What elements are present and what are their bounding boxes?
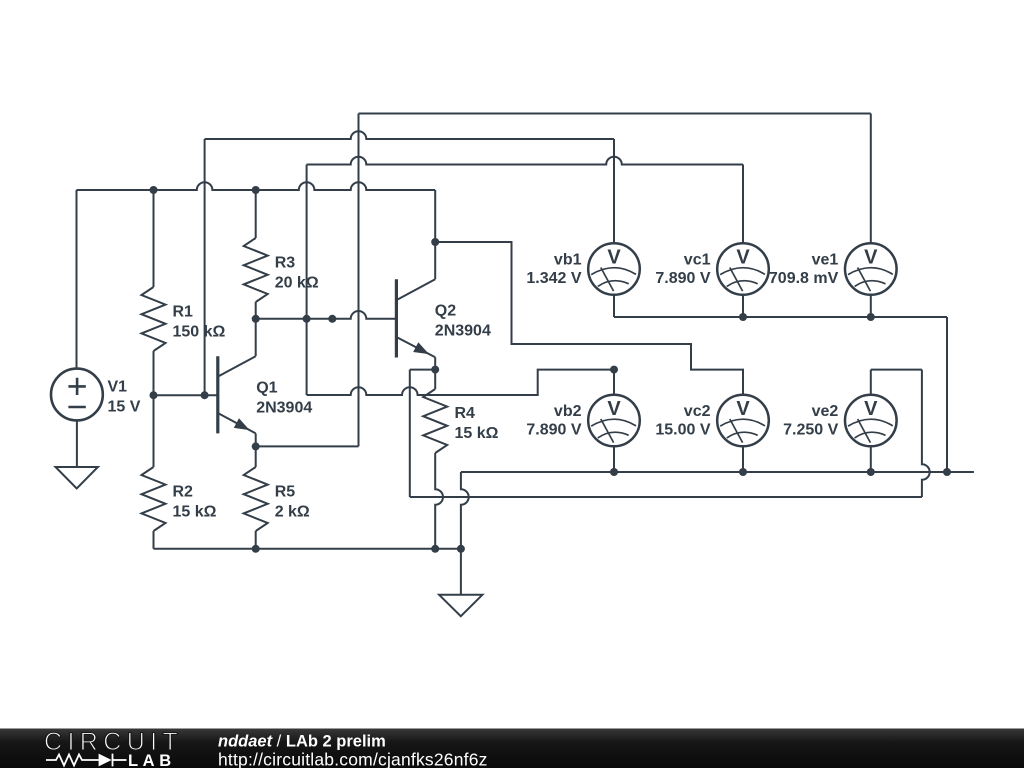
wire ve1 top drop	[870, 114, 872, 244]
ground symbol bottom	[439, 595, 482, 616]
wire R4 bottom lead with hop	[435, 453, 443, 549]
wire Q1 collector lead	[255, 319, 257, 356]
wire ve1 bottom stub	[870, 295, 872, 317]
wire rail1 down to ground with hop	[461, 472, 469, 549]
voltmeter ve2	[845, 395, 897, 447]
svg-text:V: V	[864, 247, 878, 269]
svg-text:R4: R4	[455, 405, 476, 422]
svg-text:2N3904: 2N3904	[435, 323, 491, 340]
wire Q1 base horizontal	[154, 394, 217, 396]
wire Q2 emitter elbow	[410, 357, 435, 369]
wire vc1 bottom stub	[742, 295, 744, 317]
wire ve2 top elbow	[871, 370, 922, 395]
transistor Q1	[218, 356, 256, 433]
node vc1 tap	[303, 315, 311, 323]
wire H4 +15V rail	[77, 182, 436, 190]
wire Q2 collector lead	[434, 242, 436, 279]
svg-text:nddaet / LAb 2 prelim: nddaet / LAb 2 prelim	[218, 733, 386, 751]
wire ground rail3	[154, 548, 461, 550]
wire R3 leads	[255, 190, 257, 319]
wire R3-bottom to Q2 base	[256, 311, 396, 319]
wire vc1 top drop	[742, 165, 744, 244]
wire Q1 emitter lead	[255, 433, 257, 446]
resistor R3 body	[244, 238, 268, 302]
wire V1 ground stem	[76, 420, 78, 467]
node Q2 emitter	[431, 366, 439, 374]
node Q2 collector	[431, 238, 439, 246]
svg-text:ve2: ve2	[812, 403, 839, 420]
wire Q2 emitter down to rail2	[409, 370, 411, 497]
resistor R2 body	[142, 467, 166, 531]
svg-text:R1: R1	[173, 304, 194, 321]
wire vc1 column down to vb2 line	[306, 165, 308, 396]
svg-text:15 kΩ: 15 kΩ	[173, 504, 217, 521]
svg-text:R3: R3	[275, 255, 296, 272]
svg-text:709.8 mV: 709.8 mV	[769, 270, 839, 287]
svg-text:Q2: Q2	[435, 303, 456, 320]
svg-text:R5: R5	[275, 484, 296, 501]
wire ve2 bottom stub	[870, 446, 872, 472]
wire Q2 collector to rail	[434, 190, 436, 242]
voltmeter vb1	[588, 243, 640, 295]
wire Q1 emitter horizontal	[256, 445, 359, 447]
wire meter rail1 row2 minus	[461, 471, 974, 473]
CircuitLab logo	[44, 728, 183, 768]
wire vb2 bottom stub	[613, 446, 615, 472]
ground symbol V1	[56, 467, 98, 488]
node base wire joint	[328, 315, 336, 323]
wire R2 leads	[153, 395, 155, 549]
node ground tap	[457, 545, 465, 553]
wire meter rail0 row1 minus	[614, 295, 947, 472]
svg-text:15.00 V: 15.00 V	[655, 422, 710, 439]
svg-text:2N3904: 2N3904	[256, 399, 312, 416]
svg-text:V: V	[607, 247, 621, 269]
wire H2 Q1-base to vb1	[205, 131, 614, 139]
wire y395 to vb2	[307, 370, 614, 395]
voltmeter ve1	[845, 243, 897, 295]
node Q1 emitter	[252, 442, 260, 450]
svg-text:Q1: Q1	[256, 379, 277, 396]
node vb2 bottom	[610, 468, 618, 476]
wire ground2 stem	[460, 549, 462, 595]
node R5 bottom	[252, 545, 260, 553]
voltmeter vc2	[717, 395, 769, 447]
svg-text:V: V	[864, 398, 878, 420]
svg-text:150 kΩ: 150 kΩ	[173, 324, 226, 341]
svg-text:V: V	[736, 247, 750, 269]
svg-text:1.342 V: 1.342 V	[526, 270, 581, 287]
node R1 top	[150, 186, 158, 194]
svg-text:7.250 V: 7.250 V	[783, 422, 838, 439]
svg-text:15 kΩ: 15 kΩ	[455, 425, 499, 442]
svg-text:V1: V1	[108, 379, 128, 396]
wire H1 top rail Q1-emitter to ve1	[359, 113, 871, 115]
svg-text:R2: R2	[173, 484, 194, 501]
svg-text:V: V	[736, 398, 750, 420]
svg-text:LAB: LAB	[128, 752, 176, 768]
resistor R4 body	[423, 389, 447, 453]
wire H3 Q1-collector to vc1	[307, 157, 743, 165]
resistor R1 body	[142, 287, 166, 351]
transistor Q2	[396, 279, 435, 357]
node ve2 bottom	[867, 468, 875, 476]
node R3 top	[252, 186, 260, 194]
svg-text:2 kΩ: 2 kΩ	[275, 504, 310, 521]
wire Q2 collector to vc2 staircase	[435, 242, 743, 395]
voltmeter vb2	[588, 395, 640, 447]
node rail1 right	[943, 468, 951, 476]
node R3 bottom	[252, 315, 260, 323]
wire Q1 base vertical	[204, 139, 206, 395]
svg-text:V: V	[607, 398, 621, 420]
wire vc2 bottom stub	[742, 446, 744, 472]
svg-text:15 V: 15 V	[108, 399, 141, 416]
wire Q1-emitter to ve1 vertical	[358, 114, 360, 447]
node R1 bottom	[150, 391, 158, 399]
wire vb1 top drop	[613, 139, 615, 243]
svg-text:20 kΩ: 20 kΩ	[275, 275, 319, 292]
wire R4 top lead from Q2 emitter	[434, 370, 436, 389]
wire R1 leads	[153, 190, 155, 395]
svg-text:vc2: vc2	[684, 403, 711, 420]
wire ve2 right vertical with hop	[922, 370, 930, 497]
node vc2 bottom	[739, 468, 747, 476]
svg-text:http://circuitlab.com/cjanfks2: http://circuitlab.com/cjanfks26nf6z	[218, 750, 488, 768]
svg-text:7.890 V: 7.890 V	[526, 422, 581, 439]
node vc1 bottom	[739, 313, 747, 321]
voltage source V1	[51, 369, 103, 421]
node vb2 top	[610, 366, 618, 374]
svg-text:vc1: vc1	[684, 252, 711, 269]
wire V1 top	[76, 190, 78, 368]
svg-text:vb2: vb2	[554, 403, 582, 420]
svg-text:ve1: ve1	[812, 252, 839, 269]
svg-text:vb1: vb1	[554, 252, 582, 269]
node Q1 base tap	[201, 391, 209, 399]
node ve1 bottom	[867, 313, 875, 321]
svg-text:7.890 V: 7.890 V	[655, 270, 710, 287]
wire rail2 to ve2	[410, 496, 922, 498]
voltmeter vc1	[717, 243, 769, 295]
node R4 bottom	[431, 545, 439, 553]
wire vb2 top stub	[613, 370, 615, 395]
resistor R5 body	[244, 467, 268, 531]
wire R5 leads	[255, 446, 257, 548]
